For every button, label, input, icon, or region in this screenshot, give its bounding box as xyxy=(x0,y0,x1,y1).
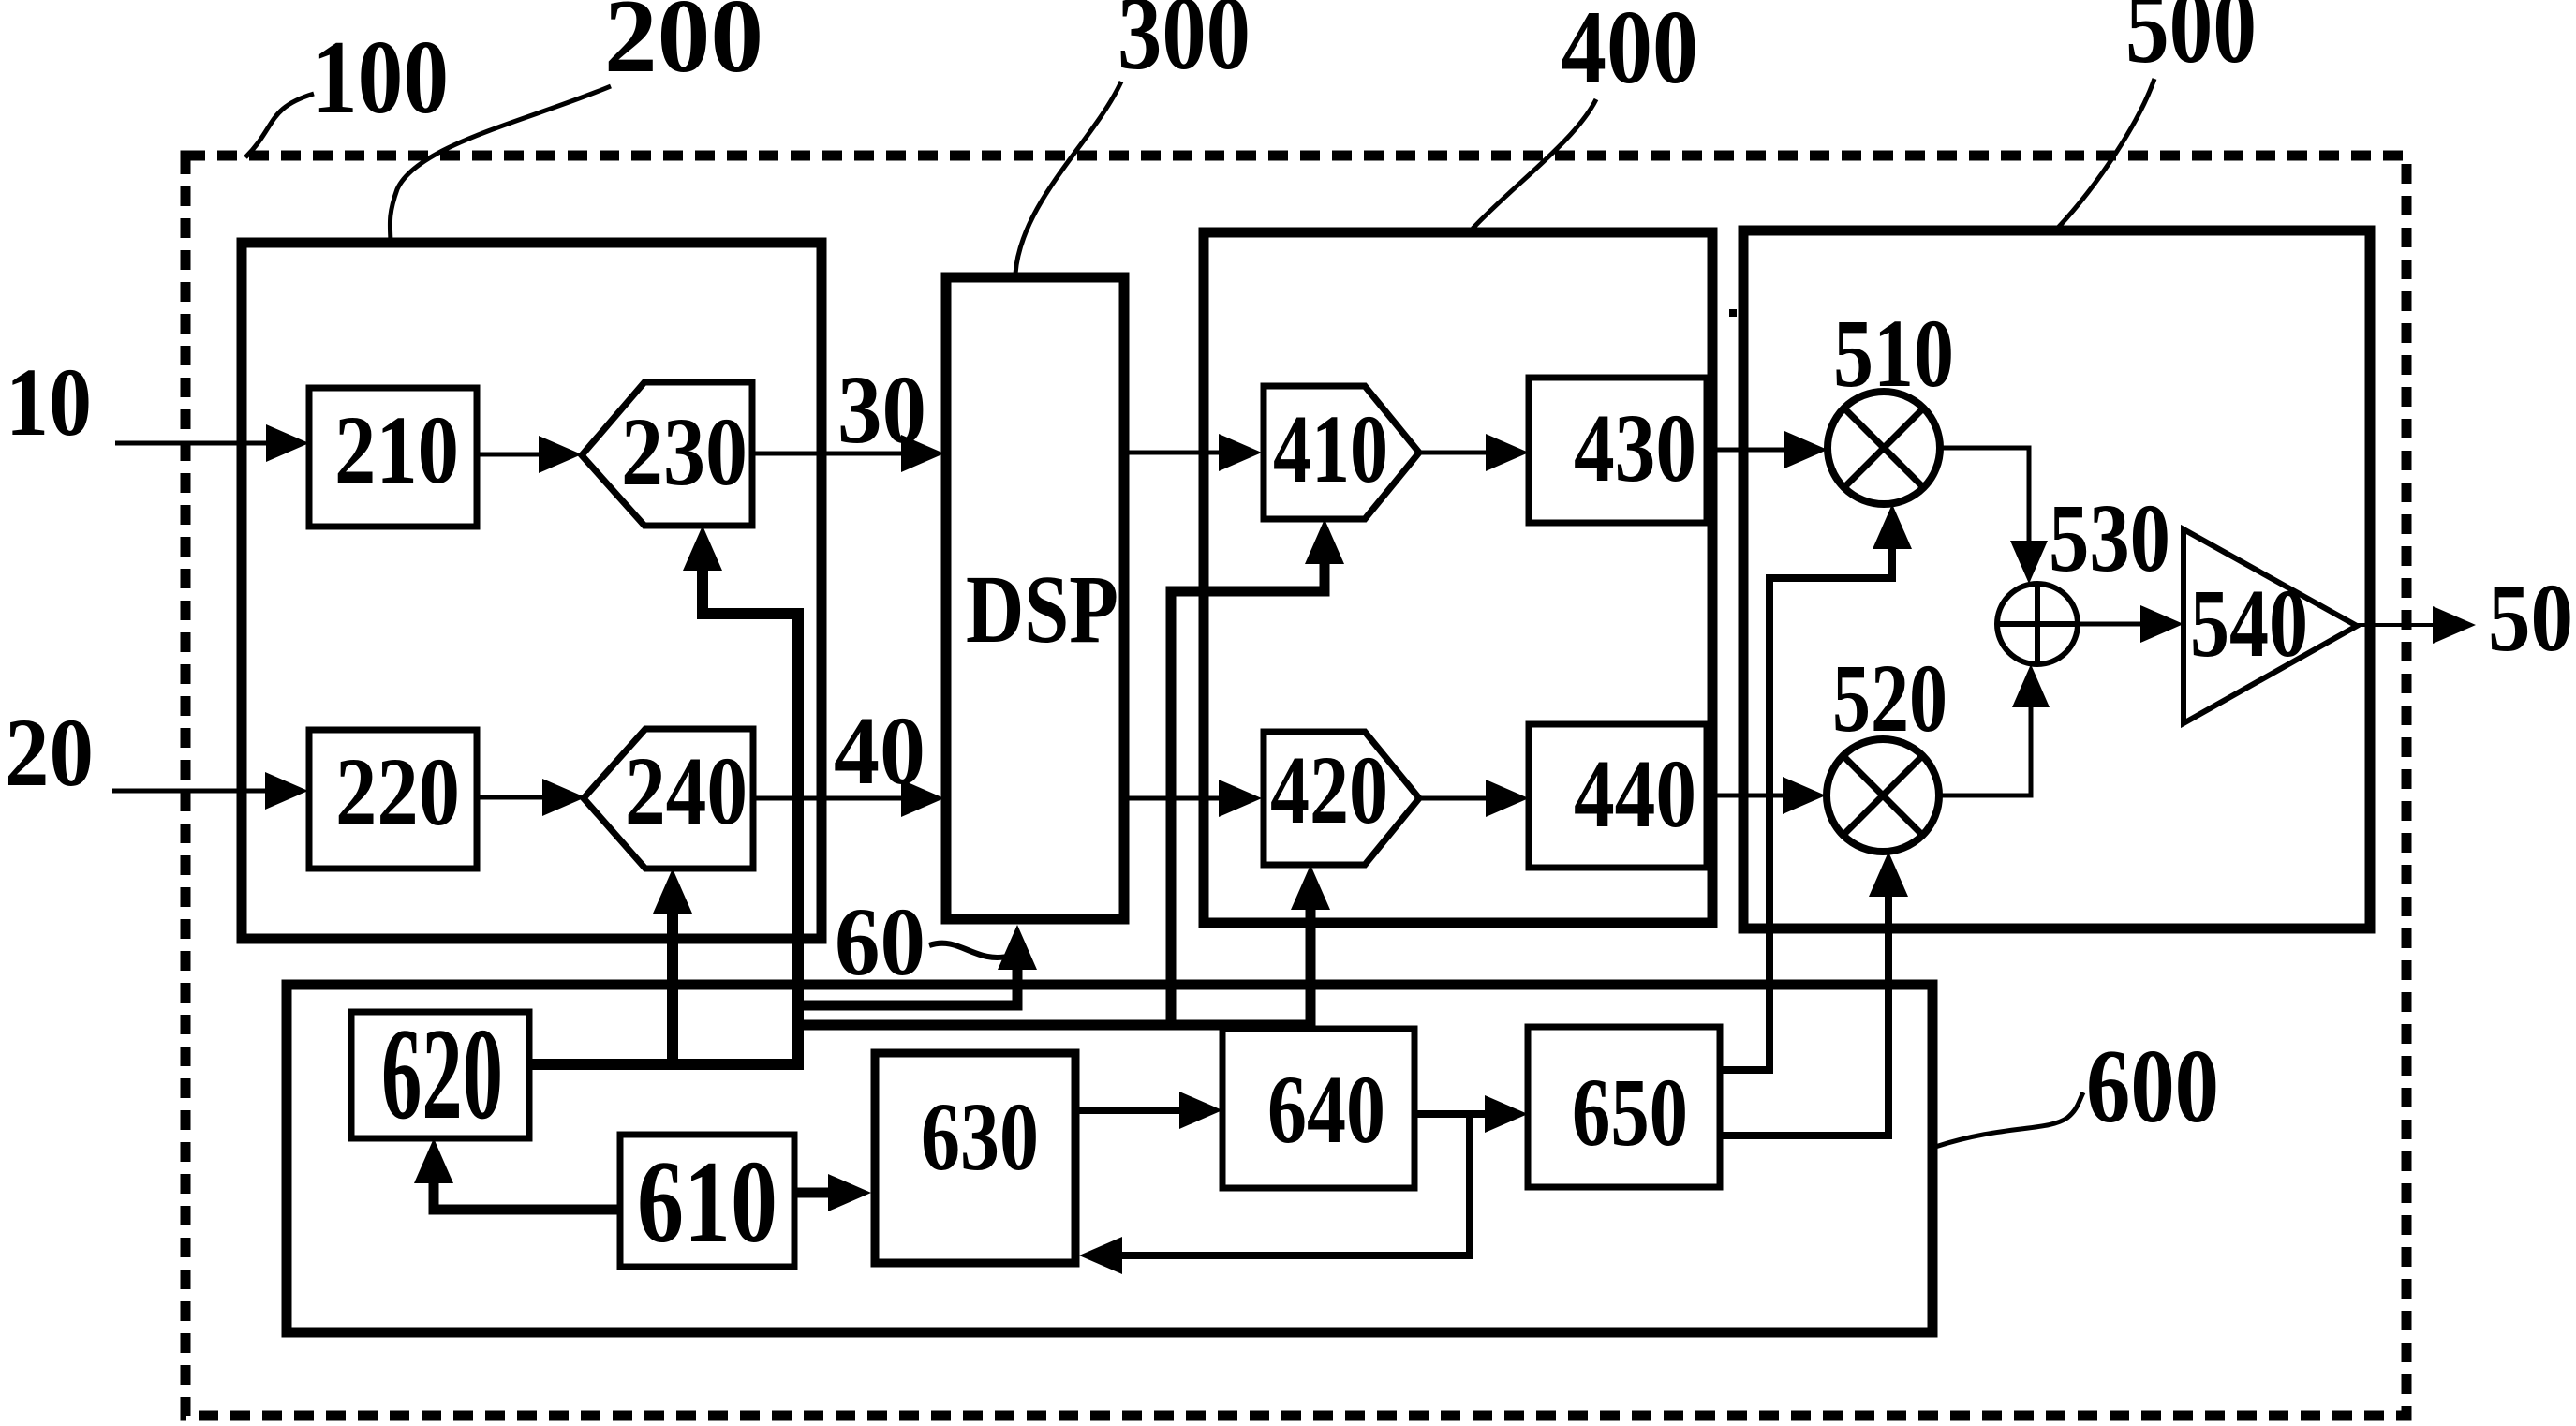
svg-text:220: 220 xyxy=(335,738,460,846)
svg-text:600: 600 xyxy=(2086,1029,2219,1145)
arrowhead into 440 xyxy=(1486,780,1529,817)
block 430 xyxy=(1529,378,1707,523)
svg-text:650: 650 xyxy=(1572,1059,1688,1166)
dashed system boundary 100 xyxy=(185,156,2406,1416)
converter 420 (right-pointing pentagon) xyxy=(1264,732,1419,865)
wire 210 to 230 xyxy=(477,453,542,457)
svg-text:410: 410 xyxy=(1273,395,1388,503)
control branch up into 240 xyxy=(667,914,678,1064)
arrowhead into 410 xyxy=(1219,434,1262,471)
control bus to 410/420 xyxy=(798,910,1310,1025)
wire 510 to 530 xyxy=(1940,448,2029,544)
control wire 620 bus xyxy=(529,571,798,1064)
block 400 box xyxy=(1204,232,1712,923)
arrowhead into 210 xyxy=(266,424,309,462)
svg-text:630: 630 xyxy=(921,1083,1039,1191)
svg-text:440: 440 xyxy=(1574,740,1696,848)
arrowhead into 420 xyxy=(1219,780,1262,817)
arrowhead into 520 xyxy=(1783,777,1826,814)
leader line for 200 xyxy=(390,86,611,241)
multiplier 520 (circle with X) xyxy=(1827,739,1939,852)
arrowhead down into 530 xyxy=(2010,541,2048,584)
wire DSP to 420 xyxy=(1124,796,1222,801)
arrowhead into 540 xyxy=(2140,605,2184,643)
wire DSP to 410 xyxy=(1124,451,1222,455)
arrowhead into 220 xyxy=(265,772,308,810)
wire 30: 230 to DSP xyxy=(752,452,905,456)
arrowhead output xyxy=(2433,606,2476,644)
svg-text:200: 200 xyxy=(604,0,763,95)
arrowhead into DSP (40) xyxy=(901,780,944,817)
svg-text:10: 10 xyxy=(6,349,92,456)
leader line for 400 xyxy=(1473,99,1596,229)
arrowhead into 650 xyxy=(1485,1095,1528,1133)
block 200 box xyxy=(242,243,822,939)
input wire 20 xyxy=(112,789,269,794)
wire 220 to 240 xyxy=(477,795,546,800)
block 220 xyxy=(309,730,477,869)
control bus to DSP xyxy=(798,970,1017,1005)
svg-text:50: 50 xyxy=(2488,564,2573,672)
wire 640 to 650 xyxy=(1414,1110,1488,1118)
DSP block 300 xyxy=(946,277,1124,919)
block 610 xyxy=(620,1135,794,1267)
svg-text:430: 430 xyxy=(1574,394,1696,502)
block 620 xyxy=(351,1012,529,1138)
arrowhead up into DSP xyxy=(998,925,1037,970)
wire 410 to 430 xyxy=(1419,451,1489,455)
svg-text:620: 620 xyxy=(381,1002,503,1147)
arrowhead into DSP (30) xyxy=(901,435,944,472)
svg-text:640: 640 xyxy=(1267,1056,1385,1164)
arrowhead up into 620 xyxy=(414,1138,453,1183)
input wire 10 xyxy=(115,441,270,446)
feedback wire 640 branch to 630 xyxy=(1118,1114,1470,1255)
arrowhead up into 520 xyxy=(1869,852,1908,897)
block 210 xyxy=(309,388,477,527)
svg-text:60: 60 xyxy=(835,888,925,996)
block 640 xyxy=(1222,1029,1414,1188)
wire 520 to 530 xyxy=(1939,704,2031,795)
svg-text:540: 540 xyxy=(2190,570,2308,677)
wire 420 to 440 xyxy=(1419,796,1489,801)
block 600 box xyxy=(287,985,1932,1332)
wire 40: 240 to DSP xyxy=(753,796,905,801)
wire 630 to 640 xyxy=(1075,1107,1183,1114)
arrowhead up into 240 xyxy=(653,869,692,914)
leader line for 500 xyxy=(2058,79,2154,228)
arrowhead left into 630 xyxy=(1079,1237,1122,1274)
svg-text:400: 400 xyxy=(1561,0,1698,106)
arrowhead up into 420 xyxy=(1291,865,1330,910)
converter 410 (right-pointing pentagon) xyxy=(1264,386,1419,519)
svg-text:610: 610 xyxy=(637,1137,777,1268)
svg-text:420: 420 xyxy=(1270,736,1388,844)
wire 610 to 620 xyxy=(434,1182,620,1210)
svg-text:500: 500 xyxy=(2125,0,2257,85)
svg-text:DSP: DSP xyxy=(966,556,1118,663)
wire 440 to 520 xyxy=(1707,794,1786,798)
control wire 650 to 520 xyxy=(1720,897,1888,1136)
output wire 50 xyxy=(2357,623,2435,627)
svg-text:530: 530 xyxy=(2049,484,2170,592)
block 650 xyxy=(1528,1027,1720,1187)
multiplier 510 (circle with X) xyxy=(1828,392,1940,504)
arrowhead into 230 xyxy=(539,436,582,473)
svg-text:100: 100 xyxy=(312,20,449,136)
converter 230 (left-pointing pentagon) xyxy=(582,382,752,526)
amplifier 540 (triangle) xyxy=(2184,529,2357,723)
adder 530 (circle with plus) xyxy=(1997,584,2078,664)
leader line for 100 xyxy=(245,94,314,157)
arrowhead into 430 xyxy=(1486,434,1529,471)
control wire 650 to 510 xyxy=(1720,549,1892,1070)
block 500 box xyxy=(1743,230,2370,928)
arrowhead up into 230 xyxy=(683,526,722,571)
svg-text:20: 20 xyxy=(5,699,94,807)
svg-text:210: 210 xyxy=(334,396,459,504)
svg-text:230: 230 xyxy=(621,398,748,506)
svg-text:240: 240 xyxy=(625,737,748,845)
arrowhead into 630 xyxy=(828,1174,871,1211)
arrowhead into 240 xyxy=(542,779,585,816)
wire 610 to 630 xyxy=(794,1188,832,1198)
leader line for 600 xyxy=(1935,1092,2083,1147)
arrowhead up into 410 xyxy=(1305,519,1344,564)
block 440 xyxy=(1529,724,1707,868)
control branch to 410 xyxy=(1171,564,1325,1025)
arrowhead into 640 xyxy=(1179,1092,1222,1129)
converter 240 (left-pointing pentagon) xyxy=(584,729,753,869)
block 630 xyxy=(875,1053,1075,1263)
squiggle leader 60 xyxy=(929,943,1012,958)
arrowhead up into 510 xyxy=(1873,504,1912,549)
wire 530 to 540 xyxy=(2078,622,2144,627)
arrowhead into 510 xyxy=(1784,431,1828,468)
arrowhead up into 530 xyxy=(2012,664,2050,707)
svg-text:300: 300 xyxy=(1118,0,1251,92)
leader line for 300 xyxy=(1015,82,1121,274)
speck xyxy=(1729,309,1737,317)
wire 430 to 510 xyxy=(1707,448,1788,453)
